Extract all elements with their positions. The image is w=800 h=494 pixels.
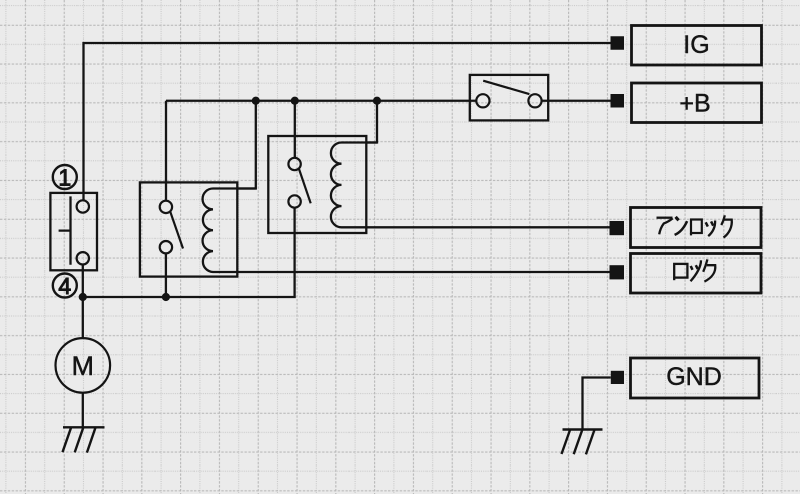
junction dot B <box>291 97 299 105</box>
relay K1 box <box>140 182 237 276</box>
svg-text:IG: IG <box>683 31 709 59</box>
switch SW1 right contact <box>528 94 541 107</box>
switch SW1 lever <box>483 81 529 94</box>
terminal square lock <box>610 265 625 279</box>
connector P1 pin 1 <box>77 200 89 212</box>
label box IG <box>632 26 762 66</box>
svg-text:1: 1 <box>58 164 71 190</box>
relay K1 contact bottom <box>160 241 172 253</box>
relay K2 contact top <box>288 158 300 170</box>
junction dot A <box>252 97 260 105</box>
relay K2 box <box>268 136 366 233</box>
svg-text:GND: GND <box>666 363 722 391</box>
relay K1 contact top <box>160 201 172 213</box>
label box GND <box>631 358 760 398</box>
wire +B rail down to relay K1 switch <box>165 101 167 201</box>
motor M1 body <box>56 338 111 393</box>
connector P1 actuator bar <box>59 196 71 264</box>
svg-text:4: 4 <box>58 273 71 299</box>
wire node 4 to motor <box>82 265 84 339</box>
relay K2 lever <box>299 169 311 203</box>
terminal square +B <box>611 94 625 108</box>
svg-text:M: M <box>72 351 95 381</box>
wire lock: relay K1 coil to lock connector <box>238 271 611 273</box>
node 1 badge <box>53 165 77 189</box>
junction dot D <box>162 293 170 301</box>
switch SW1 box <box>470 75 548 121</box>
wire motor to ground <box>82 393 84 428</box>
label unlock katakana アンロック <box>657 215 732 237</box>
wire GND connector to ground <box>583 378 611 430</box>
terminal square unlock <box>610 221 625 235</box>
wire junction to relay K1 coil <box>237 101 256 189</box>
relay K2 coil <box>331 143 377 228</box>
label box +B <box>632 83 762 123</box>
wire junction to relay K2 coil <box>366 101 377 143</box>
relay K1 coil <box>203 189 256 273</box>
wire IG: terminal 1 to IG connector <box>84 43 611 200</box>
terminal square IG <box>611 36 625 50</box>
terminal square GND <box>611 371 624 384</box>
wire junction to relay K2 switch <box>294 101 296 158</box>
relay K1 lever <box>170 212 183 249</box>
node 4 badge <box>53 274 77 298</box>
label box unlock <box>631 208 762 248</box>
wire unlock: relay K2 coil to unlock connector <box>366 226 610 228</box>
switch SW1 left contact <box>476 94 489 107</box>
connector P1 body <box>50 193 97 270</box>
wire relay K1 switch to node 4 rail <box>165 253 167 297</box>
svg-text:+B: +B <box>679 89 710 117</box>
relay K2 contact bottom <box>288 195 300 207</box>
junction dot E <box>79 293 87 301</box>
ground G1 <box>63 427 105 452</box>
junction dot C <box>373 97 381 105</box>
ground G2 <box>562 430 603 455</box>
wire switch to +B connector <box>542 100 611 102</box>
wire +B rail <box>166 100 476 102</box>
label box lock <box>631 254 762 294</box>
wire relay K2 switch down and left to node 4 rail <box>83 208 295 297</box>
label lock katakana ロック <box>674 259 715 281</box>
connector P1 pin 4 <box>77 252 89 264</box>
